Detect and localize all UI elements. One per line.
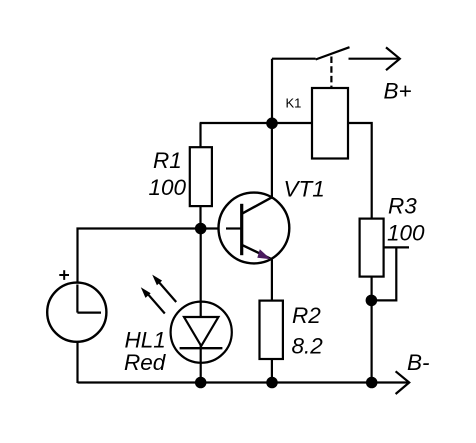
svg-text:100: 100 [387, 221, 425, 246]
wire base lead [201, 227, 242, 229]
svg-text:100: 100 [149, 175, 187, 200]
svg-text:R1: R1 [153, 148, 182, 173]
junction R3 bottom [366, 377, 378, 389]
wire R3 bottom to B- rail [371, 277, 373, 383]
LED light arrow 1 [148, 294, 165, 314]
wire B+ arrow shaft [349, 58, 400, 60]
junction R3 tap node [366, 295, 378, 307]
wire battery left branch [78, 229, 201, 283]
wire R3 tap drop [372, 247, 397, 300]
battery plus mark [59, 274, 69, 276]
transistor emitter arrowhead [257, 249, 271, 259]
resistor R1 [190, 147, 212, 206]
svg-text:8.2: 8.2 [292, 334, 324, 359]
resistor R3 [360, 219, 384, 277]
wire R2 bottom lead [271, 359, 273, 383]
svg-text:HL1: HL1 [125, 328, 166, 353]
wire emitter lead [271, 259, 273, 300]
wire relay to R3 [348, 123, 372, 219]
wire top node line y=123 [200, 122, 312, 124]
arrow B+ head [386, 47, 400, 70]
svg-text:R3: R3 [388, 194, 417, 219]
LED HL1 [171, 302, 232, 363]
wire base node to LED [200, 229, 202, 383]
svg-text:VT1: VT1 [284, 177, 325, 202]
wire switch feed [272, 58, 316, 60]
junction at collector node [266, 118, 278, 130]
wire R1 bottom to base node [199, 206, 201, 228]
junction R2 bottom [266, 377, 278, 389]
wire R1 top lead [199, 123, 201, 147]
wire bottom B- rail [78, 381, 408, 383]
junction base node [195, 223, 207, 235]
wire battery bottom [76, 342, 78, 383]
svg-text:B+: B+ [384, 79, 412, 104]
resistor R2 [260, 301, 283, 359]
wire collector lead [271, 123, 273, 197]
LED light arrow 2 [159, 282, 176, 302]
relay coil K1 [312, 88, 348, 159]
wire R3 tap [384, 246, 409, 248]
battery G1 [47, 283, 106, 342]
switch contact blade K1.1 [316, 47, 350, 59]
svg-text:B-: B- [407, 350, 430, 375]
wire collector riser to switch [271, 59, 273, 123]
svg-text:K1: K1 [286, 96, 302, 111]
svg-text:R2: R2 [292, 303, 321, 328]
svg-text:Red: Red [124, 350, 167, 375]
relay actuation dashed link [330, 57, 332, 89]
junction LED bottom [195, 377, 207, 389]
arrow B- head [396, 371, 410, 394]
transistor VT1 [219, 193, 290, 264]
